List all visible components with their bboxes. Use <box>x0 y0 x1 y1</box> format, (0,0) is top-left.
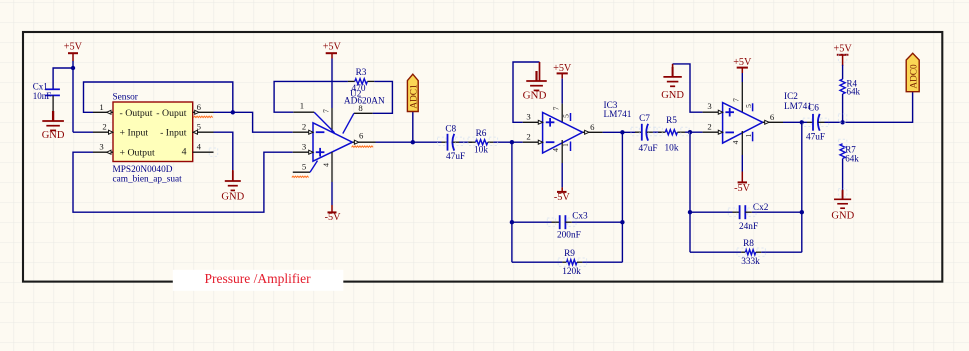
node terminal compile markers <box>209 54 847 267</box>
pin 7 IC2 <box>741 68 743 113</box>
svg-text:- Ouput: - Ouput <box>156 108 186 119</box>
power +5V (IC2) <box>733 57 752 68</box>
svg-text:7: 7 <box>322 109 331 113</box>
svg-text:GND: GND <box>221 191 244 202</box>
designator IC2 LM741 C6 <box>784 92 819 114</box>
svg-text:-5V: -5V <box>554 192 570 203</box>
pin 8 U2 <box>343 103 373 134</box>
svg-text:GND: GND <box>831 211 854 222</box>
capacitor C6 <box>806 114 825 143</box>
svg-text:3: 3 <box>526 111 530 121</box>
resistor R9 <box>562 249 582 277</box>
wire IC3 feedback right vertical <box>621 132 623 262</box>
svg-text:R5: R5 <box>666 116 677 126</box>
op-amp U2 AD620AN triangle <box>313 123 352 161</box>
wire Cx2 to right vertical <box>752 211 802 213</box>
svg-text:Cx3: Cx3 <box>572 211 588 221</box>
pin 5 stub IC3 (offset null) <box>562 113 571 121</box>
pin 4 U2 (V-) <box>322 152 333 205</box>
pin 4 (sensor) <box>193 142 214 153</box>
svg-text:2: 2 <box>707 122 711 132</box>
ground GND (IC2 pin 3) <box>661 64 684 101</box>
wire sensor pin3 loop to U2 pin 3 <box>73 152 293 212</box>
pin 2 IC2 <box>703 122 723 135</box>
net label flag ADC1 <box>407 74 419 111</box>
power +5V (U2) <box>323 42 342 54</box>
svg-text:+5V: +5V <box>64 42 83 53</box>
wire Cx3 to right vertical <box>572 221 623 223</box>
wire IC2 feedback left vertical <box>689 132 691 252</box>
wire IC2 feedback right vertical <box>801 122 803 252</box>
wire sensor pin6 to junction <box>214 111 233 113</box>
resistor R7 <box>840 144 859 191</box>
pin 5 (sensor - Input) <box>193 122 214 135</box>
power +5V (R4) <box>833 43 852 66</box>
node junction Cx2 right <box>800 210 804 214</box>
sheet border frame <box>23 32 942 282</box>
pin 6 U2 (output) <box>352 131 375 145</box>
svg-text:-5V: -5V <box>734 183 750 194</box>
wire output to ADC0 <box>843 92 913 123</box>
op-amp U2 plus mark <box>316 148 325 157</box>
svg-text:5: 5 <box>562 114 571 118</box>
wire +5V junction to Cx1 <box>53 68 73 89</box>
pin 1 U2 <box>293 101 334 133</box>
pin 1 stub IC3 (offset null) <box>561 142 571 152</box>
wire R8 to right vertical <box>761 251 802 253</box>
pin 3 U2 (non-inverting) <box>293 142 313 155</box>
power -5V (IC2) <box>734 172 750 194</box>
capacitor C7 <box>635 114 658 154</box>
power +5V (IC3) <box>553 63 572 74</box>
node junction at +5V <box>71 66 75 70</box>
node junction IC3 output <box>620 130 624 134</box>
svg-text:+5V: +5V <box>733 57 752 68</box>
resistor R3 <box>348 68 374 94</box>
op-amp IC3 minus mark <box>546 141 555 143</box>
capacitor Cx3 <box>552 211 589 240</box>
wire IC2 output to C6 <box>783 121 807 123</box>
node junction IC3 inverting input <box>510 140 514 144</box>
svg-text:GND: GND <box>42 130 65 141</box>
wire R6 to IC3 pin 2 <box>493 141 522 143</box>
svg-text:Cx2: Cx2 <box>753 203 769 213</box>
svg-text:R9: R9 <box>564 249 575 259</box>
svg-text:3: 3 <box>99 142 103 152</box>
wire U2 output to C8 <box>376 141 442 143</box>
wire R9 to right vertical <box>582 261 622 263</box>
wire sensor pin5 to ground <box>214 132 233 170</box>
wire R3 to U2 pin 8 <box>373 81 393 113</box>
pin 3 IC2 <box>703 101 723 114</box>
svg-text:64k: 64k <box>847 87 861 97</box>
svg-text:4: 4 <box>322 163 331 167</box>
capacitor Cx2 <box>733 203 769 232</box>
svg-text:7: 7 <box>732 98 741 102</box>
svg-text:4: 4 <box>731 140 740 144</box>
wire C7 to R5 <box>653 131 661 133</box>
svg-text:R6: R6 <box>476 129 487 139</box>
svg-text:3: 3 <box>707 101 711 111</box>
designator IC3 LM741 <box>604 101 632 120</box>
wire sensor pin1 loop to pin6 junction <box>84 82 233 112</box>
node junction ADC1 tap <box>411 140 415 144</box>
pin 6 IC2 (output) <box>763 112 783 124</box>
wire C8 to R6 <box>459 141 472 143</box>
op-amp U2 minus mark <box>316 131 325 133</box>
svg-text:+5V: +5V <box>323 42 342 53</box>
power -5V (U2) <box>325 205 341 223</box>
pin 4 IC2 (V-) <box>731 131 742 172</box>
svg-text:LM741: LM741 <box>604 110 632 120</box>
no-ERC squiggle under sensor pin 6 <box>194 116 213 117</box>
component sensor box MPS20N0040D <box>113 93 193 185</box>
pin 4 IC3 (V-) <box>551 140 562 187</box>
pin 2 IC3 <box>523 132 543 145</box>
op-amp IC2 LM741 triangle <box>723 103 763 144</box>
resistor R8 <box>741 239 761 267</box>
title band <box>173 270 343 291</box>
node junction Cx3 right <box>620 220 624 224</box>
svg-text:1: 1 <box>99 102 103 112</box>
svg-text:2: 2 <box>302 122 306 132</box>
no-ERC squiggle under U2 pin 6 <box>352 146 374 147</box>
svg-text:AD620AN: AD620AN <box>344 96 385 106</box>
svg-text:6: 6 <box>359 131 364 141</box>
svg-text:4: 4 <box>182 146 187 157</box>
no-ERC squiggle under U2 pin 5 <box>292 176 309 177</box>
wire IC3 feedback left vertical <box>511 142 513 262</box>
wire Cx2 row left <box>690 211 733 213</box>
designator U2 AD620AN <box>344 89 385 106</box>
svg-text:10k: 10k <box>474 146 488 156</box>
wire R5 to IC2 pin 2 <box>685 131 703 133</box>
svg-text:GND: GND <box>523 90 547 102</box>
pin 1 (sensor - Output) <box>93 102 113 114</box>
node junction sensor outputs <box>231 110 235 114</box>
resistor R5 <box>658 116 685 153</box>
svg-text:+ Output: + Output <box>120 148 155 159</box>
svg-text:5: 5 <box>197 122 201 132</box>
pin 7 U2 (V+) <box>331 53 333 132</box>
svg-text:47uF: 47uF <box>446 152 465 162</box>
svg-text:C6: C6 <box>808 104 819 114</box>
resistor R4 <box>840 65 861 123</box>
svg-text:1: 1 <box>744 133 753 137</box>
svg-text:5: 5 <box>302 162 306 172</box>
pin 5 U2 (REF) <box>293 161 318 173</box>
svg-text:3: 3 <box>302 142 306 152</box>
svg-text:ADC0: ADC0 <box>909 64 919 89</box>
op-amp IC2 plus mark <box>725 108 734 117</box>
pin 7 IC3 <box>561 73 563 123</box>
power +5V (sensor supply) <box>64 42 83 62</box>
svg-text:10nF: 10nF <box>33 91 52 101</box>
svg-text:2: 2 <box>526 132 530 142</box>
wire IC2 pin3 to ground <box>673 64 703 112</box>
svg-text:7: 7 <box>552 106 561 110</box>
svg-text:+5V: +5V <box>833 43 852 54</box>
resistor R6 <box>468 129 493 156</box>
op-amp IC3 LM741 triangle <box>543 113 583 154</box>
wire IC3 pin3 to ground <box>513 62 540 122</box>
ground GND (sensor pin 5) <box>221 170 244 202</box>
svg-text:1: 1 <box>300 101 304 111</box>
capacitor Cx1 <box>33 82 60 113</box>
wire U2 pin1 to R3 <box>274 81 348 112</box>
svg-text:24nF: 24nF <box>739 222 758 232</box>
svg-text:-5V: -5V <box>325 212 341 223</box>
ground GND (below Cx1) <box>42 111 65 141</box>
wire +5V rail to sensor pin 2 <box>72 61 74 132</box>
node junction IC2 output <box>800 120 804 124</box>
pin 2 (sensor + Input) <box>93 122 113 135</box>
wire R9 row left <box>512 261 563 263</box>
pin 6 (sensor - Ouput) <box>193 102 214 114</box>
wire C6 to R4/R7 junction <box>825 121 843 123</box>
node junction Cx3 left <box>510 220 514 224</box>
svg-text:120k: 120k <box>562 267 581 277</box>
svg-text:cam_bien_ap_suat: cam_bien_ap_suat <box>113 174 183 184</box>
pin 2 U2 (inverting) <box>293 122 313 135</box>
svg-text:6: 6 <box>590 122 595 132</box>
op-amp IC2 minus mark <box>725 131 734 133</box>
svg-text:+ Input: + Input <box>120 128 149 139</box>
wire Cx3 row <box>512 221 552 223</box>
pin 5 stub IC2 (offset null) <box>744 103 753 111</box>
svg-text:C8: C8 <box>445 125 456 135</box>
pin 3 (sensor + Output) <box>93 142 113 155</box>
svg-text:47uF: 47uF <box>806 133 825 143</box>
wire IC3 output to C7 <box>603 131 635 133</box>
wire R8 row left <box>690 251 741 253</box>
svg-text:4: 4 <box>551 148 560 152</box>
svg-text:200nF: 200nF <box>557 230 581 240</box>
node junction IC2 inverting input <box>688 130 692 134</box>
pin 3 IC3 <box>523 111 543 124</box>
svg-text:C7: C7 <box>639 114 650 124</box>
node junction Cx2 left <box>688 210 692 214</box>
op-amp IC3 plus mark <box>546 118 555 127</box>
wire junction to U2 pin 2 <box>233 112 293 132</box>
svg-text:MPS20N0040D: MPS20N0040D <box>113 165 173 175</box>
capacitor C8 <box>442 125 466 163</box>
ground GND (IC3 pin 3) <box>523 62 547 102</box>
svg-text:47uF: 47uF <box>638 144 657 154</box>
svg-text:333k: 333k <box>741 257 760 267</box>
svg-text:IC2: IC2 <box>784 92 798 102</box>
power -5V (IC3) <box>554 187 570 203</box>
node junction C6/R4/R7/ADC0 <box>840 120 844 124</box>
svg-text:6: 6 <box>197 102 202 112</box>
wire sensor pin2 to +5V rail <box>73 131 93 133</box>
svg-text:5: 5 <box>744 104 753 108</box>
svg-text:4: 4 <box>197 142 202 152</box>
svg-text:Pressure /Amplifier: Pressure /Amplifier <box>205 271 312 286</box>
pin 1 stub IC2 (offset null) <box>744 132 753 142</box>
net label flag ADC0 <box>906 53 919 91</box>
svg-text:R8: R8 <box>743 239 754 249</box>
svg-text:ADC1: ADC1 <box>410 84 420 109</box>
svg-text:Sensor: Sensor <box>113 93 139 103</box>
svg-text:2: 2 <box>102 122 106 132</box>
svg-text:6: 6 <box>770 112 775 122</box>
pin 6 IC3 (output) <box>583 122 603 134</box>
svg-text:10k: 10k <box>665 144 679 154</box>
svg-text:- Output: - Output <box>120 108 153 119</box>
svg-text:R3: R3 <box>356 68 367 78</box>
svg-text:1: 1 <box>561 143 570 147</box>
svg-text:+5V: +5V <box>553 63 572 74</box>
ground GND (R7) <box>831 190 854 222</box>
svg-text:64k: 64k <box>845 154 859 164</box>
wire ADC1 stem <box>412 112 414 143</box>
svg-text:- Input: - Input <box>160 128 187 139</box>
svg-text:GND: GND <box>661 90 684 101</box>
